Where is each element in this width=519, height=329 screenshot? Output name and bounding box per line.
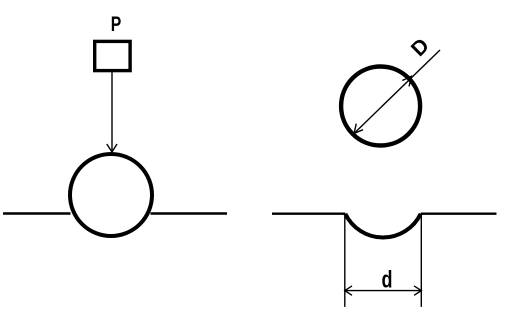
svg-text:P: P [111, 12, 122, 36]
surface line right of indentation [421, 212, 497, 214]
dimension line d [345, 290, 422, 292]
svg-text:d: d [382, 267, 393, 294]
dimension arrowhead right [414, 286, 421, 295]
extension line left [344, 214, 346, 307]
diameter dimension line [354, 50, 440, 134]
force arrow shaft [111, 72, 113, 151]
dimension arrowhead left [345, 286, 352, 295]
diameter arrowhead upper-right [402, 76, 411, 86]
ball (left circle) [70, 154, 152, 236]
surface line left of indentation [272, 212, 345, 214]
force arrowhead [107, 144, 117, 152]
indenter block (rectangle) [95, 41, 130, 70]
surface line right of ball [151, 212, 228, 214]
surface line left of ball [3, 212, 71, 214]
extension line right [420, 214, 422, 307]
ball with diameter (right circle) [341, 67, 420, 146]
svg-text:D: D [407, 34, 434, 61]
diameter arrowhead lower-left [354, 124, 363, 134]
indentation arc [345, 214, 420, 238]
